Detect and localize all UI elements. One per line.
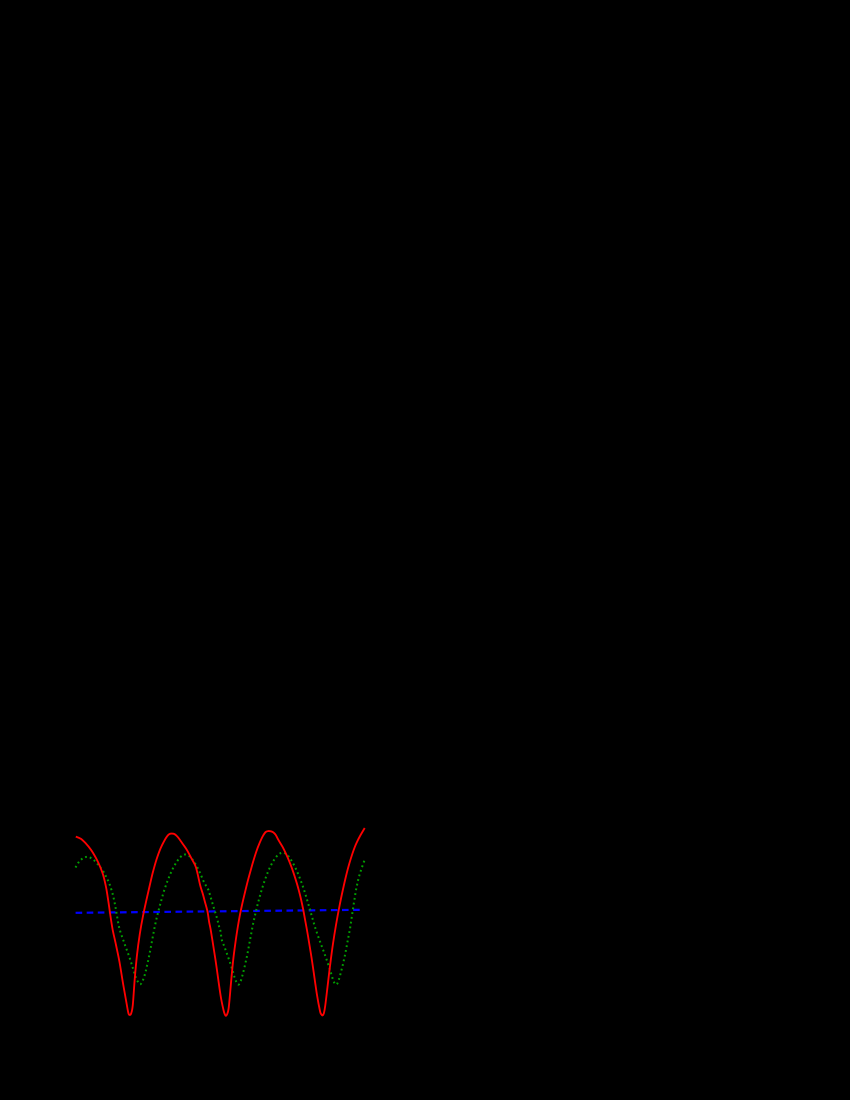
blue dashed mean line: [76, 910, 364, 913]
red solid curve: [76, 828, 365, 1016]
green dotted curve: [76, 853, 365, 985]
